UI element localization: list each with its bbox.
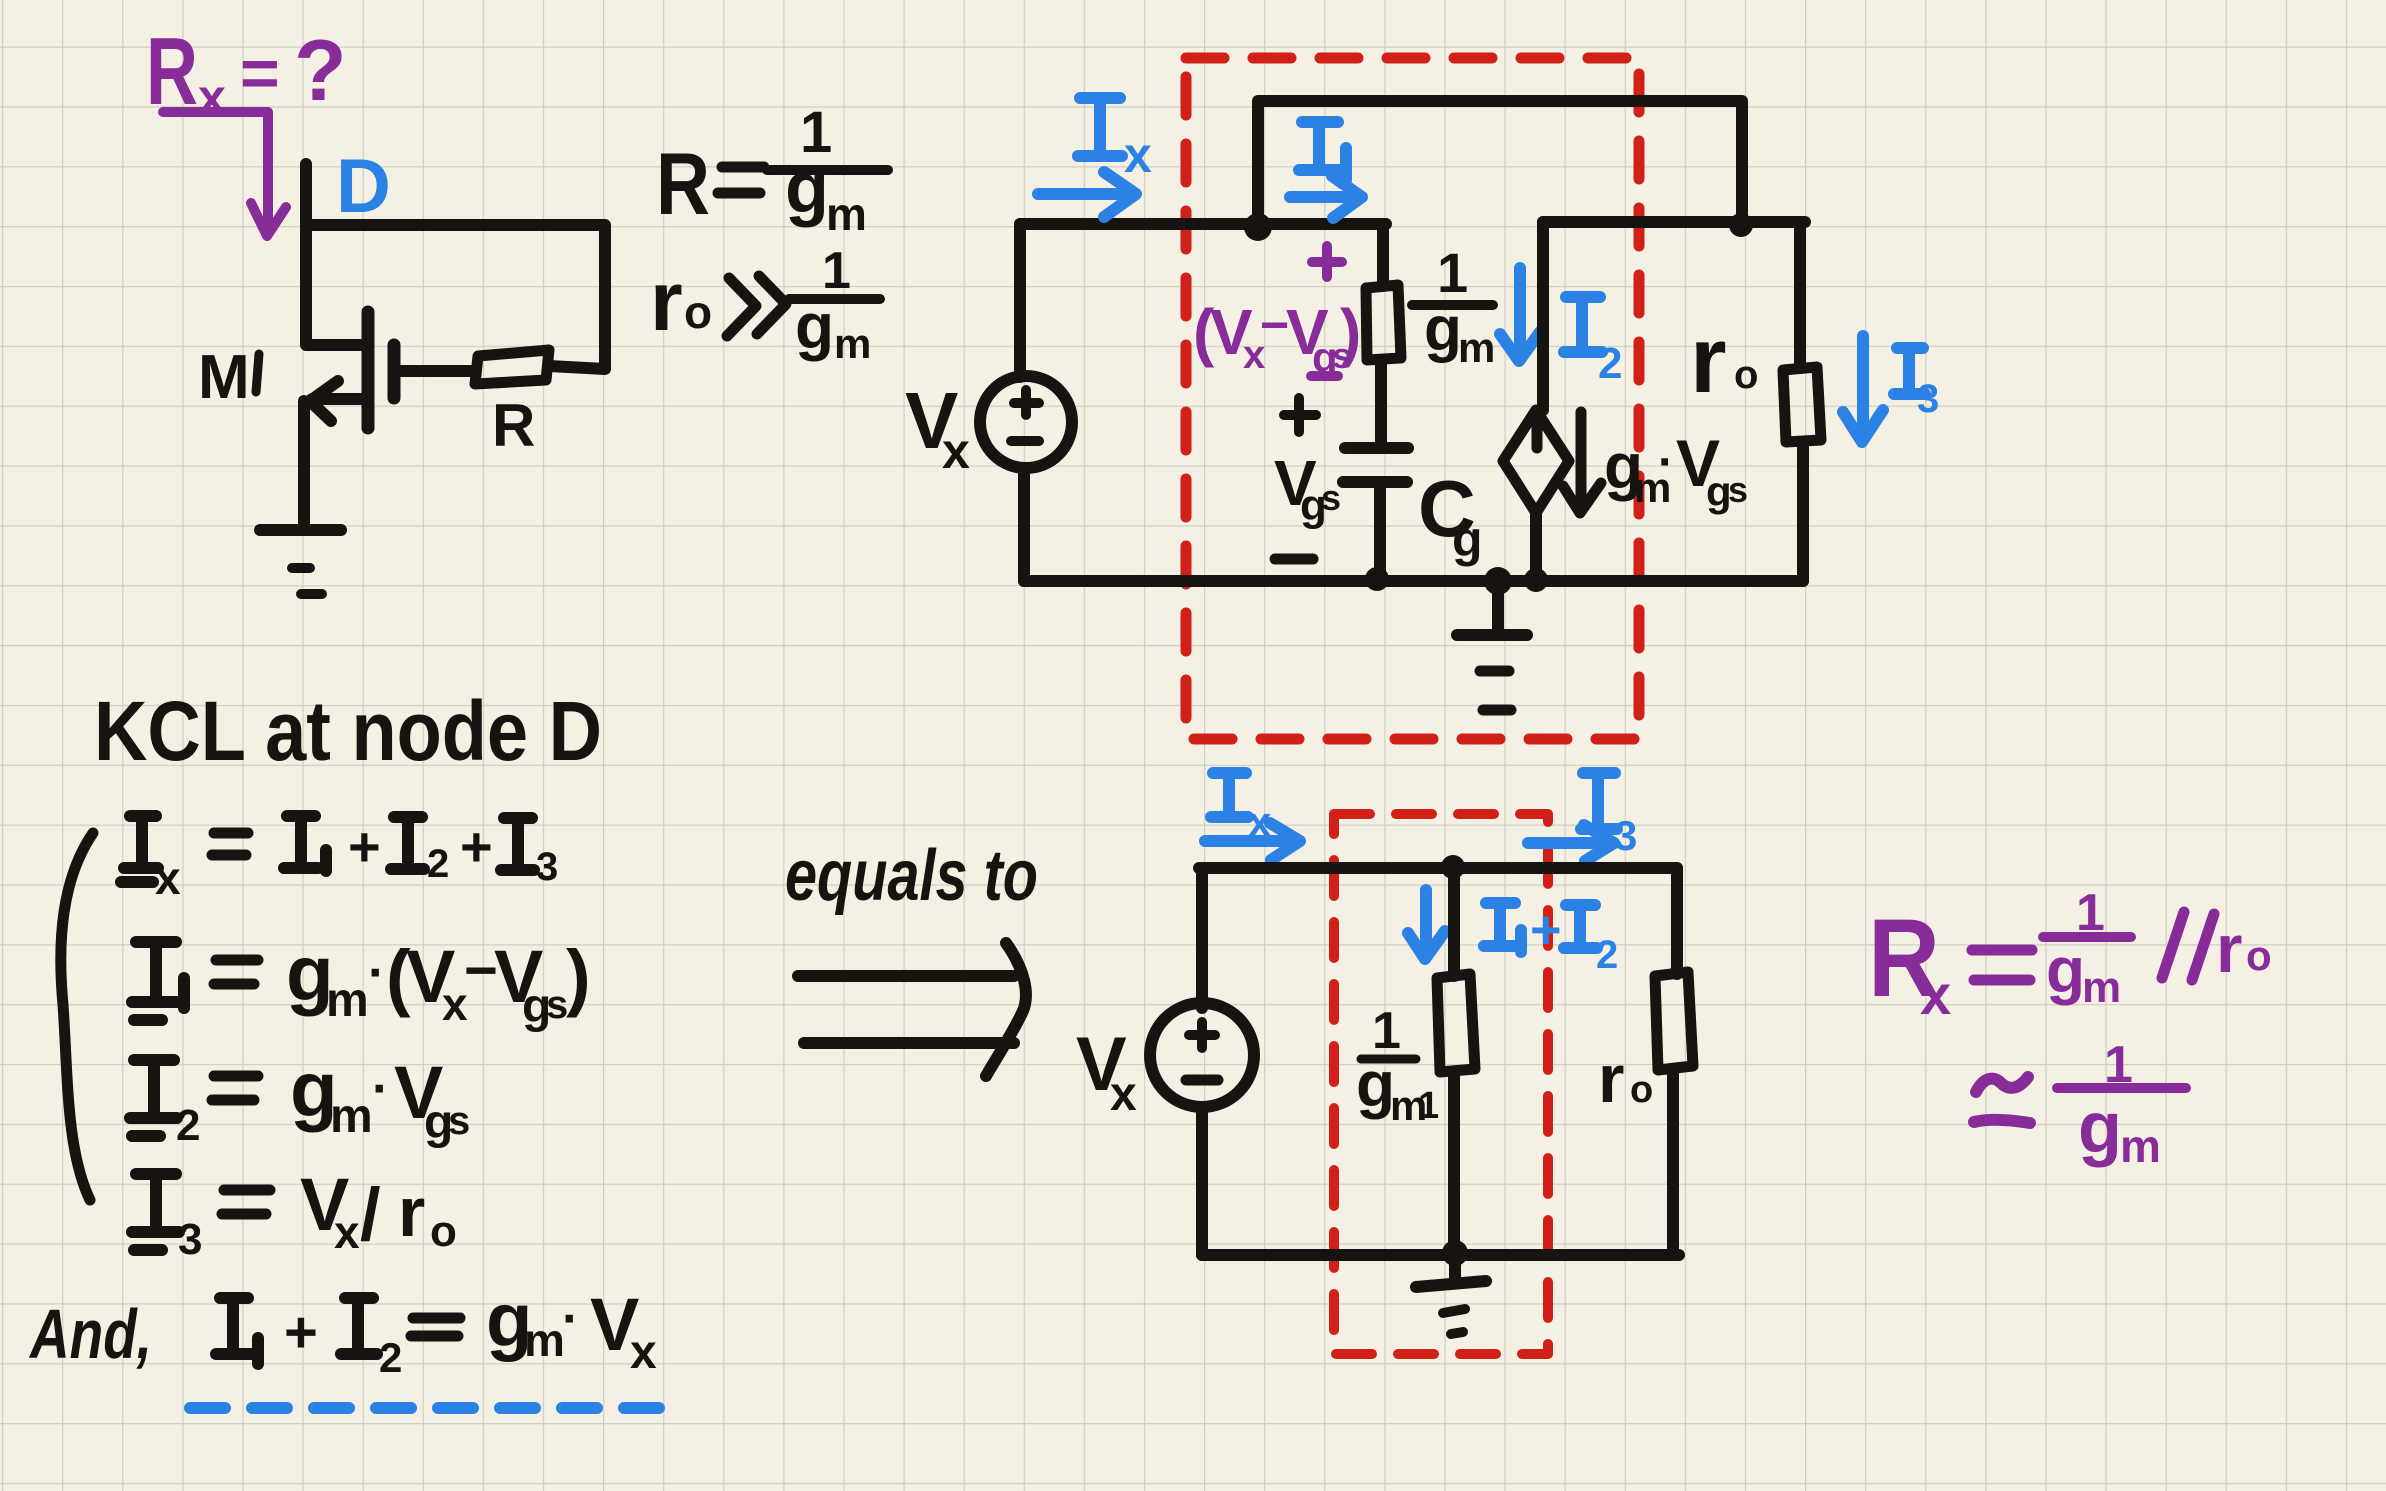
svg-text:s: s	[1321, 477, 1341, 518]
svg-text:x: x	[1110, 1068, 1137, 1121]
wire ro to bottom	[1797, 442, 1809, 581]
top feedback wire	[1258, 101, 1742, 227]
svg-text:o: o	[1630, 1069, 1653, 1111]
svg-text:·: ·	[562, 1290, 579, 1348]
channel bar	[362, 312, 375, 428]
red dashed boundary box (equivalent circuit)	[1334, 814, 1548, 1354]
svg-text:R: R	[492, 392, 535, 459]
svg-text:And,: And,	[28, 1295, 152, 1373]
svg-text:g: g	[1452, 511, 1483, 567]
svg-text:o: o	[2246, 932, 2272, 979]
label 1/gm1	[1356, 1002, 1439, 1129]
blue dashed underline	[190, 1402, 661, 1414]
svg-text:M: M	[198, 343, 250, 412]
equation I3 = Vx/ro	[132, 1163, 457, 1264]
svg-text:s: s	[546, 983, 568, 1027]
purple minus	[1311, 371, 1338, 381]
svg-text:−: −	[1260, 297, 1289, 353]
circuit ground	[1457, 581, 1527, 710]
svg-text:3: 3	[1614, 812, 1637, 859]
node junction dot right	[1729, 213, 1753, 237]
svg-text:m: m	[2082, 963, 2121, 1012]
svg-text:s: s	[448, 1099, 470, 1143]
equation R = 1/gm	[656, 100, 888, 240]
red dashed boundary box (main circuit)	[1186, 58, 1639, 739]
svg-text:?: ?	[294, 23, 347, 119]
svg-text:·: ·	[1658, 436, 1674, 489]
label 1/gm	[1412, 241, 1495, 371]
system brace	[61, 833, 93, 1200]
wire Vx to node D	[1020, 218, 1386, 230]
svg-text:equals to: equals to	[785, 836, 1038, 916]
wire node to ro branch	[1543, 216, 1805, 228]
junction dot bottom	[1442, 1240, 1468, 1266]
svg-text:3: 3	[1917, 377, 1939, 421]
implication double arrow	[798, 943, 1026, 1076]
purple label (Vx-Vgs)	[1193, 296, 1361, 381]
label I2	[1564, 297, 1622, 388]
svg-text:m: m	[524, 1314, 565, 1366]
svg-text:x: x	[630, 1326, 657, 1379]
svg-text:−: −	[464, 938, 498, 1003]
dependent source wire top	[1537, 222, 1549, 410]
svg-text:/: /	[360, 1173, 381, 1256]
svg-text:2: 2	[427, 842, 449, 886]
svg-text:r: r	[1598, 1041, 1624, 1117]
svg-text:x: x	[155, 852, 181, 904]
arrow gmVgs	[1563, 412, 1601, 513]
dependent source gmVgs	[1503, 410, 1569, 513]
junction dot top	[1441, 855, 1465, 879]
label Cg	[1418, 464, 1483, 567]
svg-text:+: +	[1530, 900, 1562, 960]
svg-text:1: 1	[1418, 1085, 1439, 1127]
svg-text:g: g	[2078, 1088, 2122, 1168]
svg-text:+: +	[460, 815, 493, 878]
svg-text:o: o	[684, 286, 712, 338]
source arrow	[310, 381, 365, 421]
svg-text:2: 2	[1598, 339, 1622, 388]
bottom wire	[1024, 575, 1803, 587]
gate bar	[388, 345, 401, 398]
resistor 1/gm	[1366, 285, 1401, 360]
label Ix	[1078, 98, 1152, 183]
purple plus	[1312, 246, 1342, 277]
svg-text:r: r	[398, 1173, 425, 1251]
resistor ro	[1783, 367, 1821, 442]
equation Ix = I1+I2+I3	[121, 815, 558, 904]
svg-text:x: x	[334, 1206, 360, 1258]
svg-text:g: g	[2046, 934, 2085, 1006]
svg-text:+: +	[284, 1300, 318, 1365]
resistor ro branch wire	[1794, 226, 1806, 368]
svg-text:g: g	[795, 290, 834, 362]
svg-text:D: D	[336, 144, 391, 229]
svg-text:): )	[1340, 296, 1361, 368]
label I1	[1299, 122, 1346, 180]
arrow Ix	[1038, 172, 1136, 217]
gate wire	[396, 365, 474, 377]
resistor R	[475, 350, 549, 384]
M1 label	[198, 343, 259, 412]
equation ro >> 1/gm	[650, 242, 880, 367]
node junction dot	[1244, 213, 1272, 241]
voltage source Vx	[980, 224, 1072, 581]
transistor M1	[304, 164, 474, 527]
svg-text:x: x	[942, 423, 970, 479]
feedback wire from gate resistor to drain	[310, 225, 605, 369]
svg-text:·: ·	[368, 944, 385, 1002]
label gm Vgs	[1604, 426, 1748, 515]
label Vgs	[1274, 447, 1341, 530]
junction dot ground	[1484, 567, 1512, 595]
svg-text:o: o	[1734, 353, 1758, 397]
svg-text:x: x	[1920, 963, 1951, 1026]
capacitor Cg	[1343, 448, 1408, 581]
svg-text:): )	[566, 935, 591, 1018]
result approx 1/gm	[1974, 1036, 2186, 1172]
arrow Ix (equivalent)	[1205, 823, 1300, 860]
label ro	[1690, 307, 1758, 412]
svg-text:KCL at node D: KCL at node D	[94, 684, 602, 778]
svg-text:3: 3	[178, 1215, 202, 1264]
ground	[260, 530, 341, 594]
junction dot capacitor	[1365, 567, 1389, 591]
label Rx = ?	[146, 18, 347, 125]
svg-text:r: r	[2216, 911, 2242, 987]
resistor 1/gm1 (equivalent)	[1437, 868, 1475, 1253]
equation And I1+I2 = gm Vx	[28, 1278, 657, 1381]
svg-text:R: R	[656, 134, 710, 233]
resistor 1/gm branch wire	[1377, 227, 1389, 286]
bottom wire (equivalent)	[1202, 1249, 1679, 1261]
equation I2 = gm Vgs	[130, 1045, 470, 1150]
dependent source wire bottom	[1530, 513, 1542, 580]
label I1+I2	[1484, 900, 1618, 977]
equation I1 = gm(Vx-Vgs)	[132, 929, 591, 1033]
svg-text:=: =	[240, 35, 280, 111]
svg-text:m: m	[330, 1090, 373, 1143]
svg-text:g: g	[785, 148, 829, 228]
svg-text:·: ·	[372, 1060, 389, 1118]
plus Vgs	[1284, 398, 1316, 432]
svg-text:m: m	[834, 320, 871, 367]
svg-text:+: +	[348, 815, 381, 878]
svg-text:2: 2	[379, 1334, 402, 1381]
arrow I1+I2	[1408, 890, 1445, 959]
drain wire	[306, 164, 362, 345]
arrow I1	[1290, 176, 1362, 218]
label Ix (equivalent)	[1211, 773, 1272, 845]
svg-text:m: m	[826, 188, 867, 240]
label I3 (equivalent)	[1581, 773, 1637, 859]
svg-text:3: 3	[536, 845, 558, 889]
svg-text:s: s	[1728, 469, 1748, 510]
svg-text:g: g	[1424, 295, 1462, 364]
svg-text:m: m	[326, 974, 369, 1027]
svg-text:x: x	[1124, 127, 1152, 183]
resistor ro (equivalent)	[1655, 868, 1693, 1255]
minus Vgs	[1275, 554, 1313, 565]
svg-text:r: r	[1690, 307, 1727, 412]
probe arrow into node D	[163, 112, 286, 236]
svg-text:m: m	[1458, 324, 1495, 371]
voltage source Vx (equivalent)	[1150, 868, 1254, 1255]
svg-text:o: o	[430, 1207, 457, 1256]
svg-text:2: 2	[1596, 933, 1618, 977]
junction dot source	[1524, 568, 1548, 592]
arrow I3	[1843, 336, 1883, 442]
source wire	[298, 401, 310, 527]
label ro (equivalent)	[1598, 1041, 1653, 1117]
svg-text:2: 2	[176, 1101, 200, 1150]
arrow I2	[1500, 268, 1540, 361]
label Vx	[905, 376, 970, 479]
label I3	[1894, 348, 1939, 421]
ground (equivalent)	[1416, 1255, 1486, 1334]
wire resistor to capacitor	[1375, 360, 1387, 446]
label Vx (equivalent)	[1076, 1022, 1137, 1121]
svg-text:m: m	[2120, 1120, 2161, 1172]
svg-text:r: r	[650, 254, 683, 348]
result Rx = 1/gm // ro	[1868, 884, 2272, 1026]
arrow I3 (equivalent)	[1528, 825, 1614, 861]
top wire (equivalent)	[1199, 862, 1677, 874]
